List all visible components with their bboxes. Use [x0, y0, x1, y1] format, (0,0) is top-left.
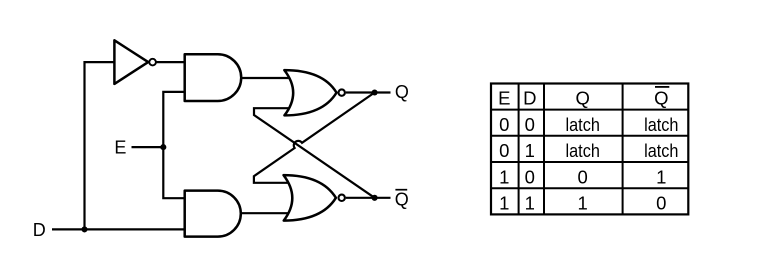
svg-text:latch: latch [644, 140, 678, 161]
wire: inverter output to AND U2 [156, 61, 185, 63]
svg-text:0: 0 [656, 193, 666, 214]
wire: feedback from node Q-bar to NOR U4 lower input [254, 108, 375, 198]
overline of table header Q-bar [655, 86, 669, 88]
truth table column lines [519, 84, 623, 215]
NOR gate U5 output bubble [339, 195, 345, 201]
svg-text:D: D [33, 220, 46, 240]
overline of output label Q-bar [395, 189, 407, 191]
svg-text:0: 0 [525, 166, 535, 187]
svg-text:E: E [114, 138, 126, 158]
junction: node Q [372, 89, 378, 95]
AND gate U2 [185, 54, 242, 101]
svg-text:0: 0 [499, 114, 509, 135]
AND gate U3 [185, 191, 241, 237]
wire: NOR U4 bubble to Q output [346, 91, 391, 93]
wire: E node branch to both AND gates [163, 92, 184, 198]
NOR gate U5 (OR body) [284, 175, 336, 221]
svg-text:D: D [523, 88, 536, 109]
svg-text:E: E [498, 88, 510, 109]
svg-text:1: 1 [499, 193, 509, 214]
junction: D node [81, 226, 87, 232]
svg-text:0: 0 [578, 166, 588, 187]
svg-text:Q: Q [395, 82, 409, 102]
truth table row lines [491, 110, 688, 189]
inverter U1 output bubble [149, 59, 156, 66]
svg-text:latch: latch [566, 140, 600, 161]
svg-text:0: 0 [499, 140, 509, 161]
wire: D node up to inverter input [85, 62, 115, 229]
truth table outer frame [491, 84, 688, 215]
svg-text:1: 1 [578, 193, 588, 214]
wire: feedback from node Q to NOR U5 upper input (hop over) [254, 93, 375, 183]
svg-text:1: 1 [499, 166, 509, 187]
svg-text:Q: Q [395, 189, 409, 209]
wire: NOR U5 bubble to Q-bar output [346, 197, 391, 199]
wire: AND U2 output to NOR U4 top input [241, 77, 291, 79]
junction: node Q-bar [372, 195, 378, 201]
inverter U1 [114, 40, 148, 84]
svg-text:0: 0 [525, 114, 535, 135]
svg-text:Q: Q [654, 88, 668, 109]
svg-text:Q: Q [576, 88, 590, 109]
junction: E node [160, 144, 166, 150]
svg-text:1: 1 [656, 166, 666, 187]
wire: AND U3 output to NOR U5 bottom input [241, 212, 291, 214]
svg-text:latch: latch [644, 114, 678, 135]
svg-text:1: 1 [525, 140, 535, 161]
svg-text:1: 1 [525, 193, 535, 214]
NOR gate U4 output bubble [339, 89, 345, 95]
wire: D input horizontal [52, 228, 185, 230]
wire: E input horizontal [132, 146, 164, 148]
svg-text:latch: latch [566, 114, 600, 135]
NOR gate U4 (OR body) [284, 70, 336, 115]
